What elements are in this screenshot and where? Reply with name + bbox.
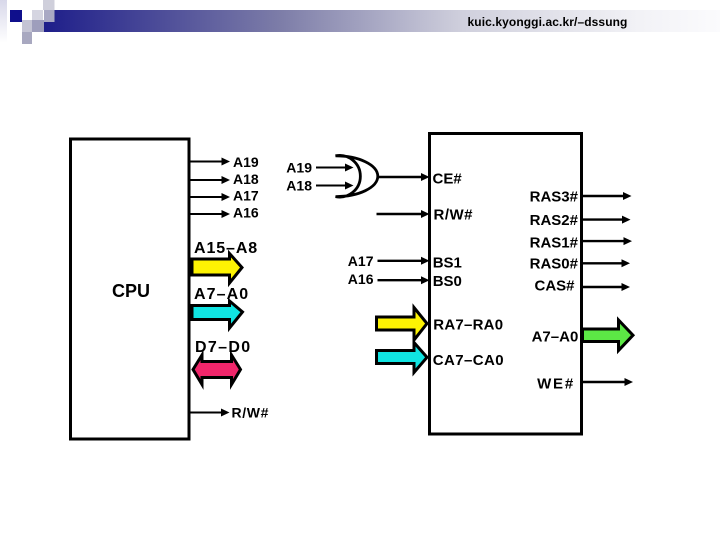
svg-text:RAS3#: RAS3# <box>530 189 579 206</box>
svg-text:RAS1#: RAS1# <box>530 234 579 251</box>
svg-text:RA7–RA0: RA7–RA0 <box>433 316 503 333</box>
bus arrow A15-A8 yellow <box>192 254 242 284</box>
bus arrow A7-A0 cyan <box>192 301 243 328</box>
wire A18 to OR gate <box>316 182 354 190</box>
wire R/W# from CPU <box>190 409 230 417</box>
svg-text:A16: A16 <box>348 271 374 287</box>
svg-text:CAS#: CAS# <box>534 278 575 295</box>
OR gate U1 <box>336 155 378 197</box>
svg-text:A16: A16 <box>233 205 259 221</box>
CPU box <box>71 139 190 439</box>
wire A17 to BS1 <box>378 257 430 265</box>
bus arrow RA7-RA0 yellow <box>377 308 428 341</box>
wire A16 from CPU <box>190 210 230 218</box>
svg-text:A7–A0: A7–A0 <box>194 286 249 303</box>
svg-text:BS1: BS1 <box>433 255 462 272</box>
svg-text:A15–A8: A15–A8 <box>194 240 258 257</box>
svg-text:CA7–CA0: CA7–CA0 <box>433 352 504 369</box>
bus arrow D7-D0 magenta bidirectional <box>193 355 241 385</box>
svg-text:R/W#: R/W# <box>232 405 270 421</box>
svg-text:A18: A18 <box>286 178 312 194</box>
memory box U2 <box>430 134 582 435</box>
svg-text:CPU: CPU <box>112 281 150 301</box>
svg-text:A17: A17 <box>348 253 374 269</box>
svg-text:WE#: WE# <box>537 375 575 392</box>
svg-text:A7–A0: A7–A0 <box>532 328 579 345</box>
wire RAS1# out <box>582 237 632 245</box>
wire CAS# out <box>582 283 630 291</box>
svg-text:R/W#: R/W# <box>434 207 474 224</box>
wire R/W# to memory <box>377 210 430 218</box>
bus arrow A7-A0 green <box>583 320 634 351</box>
wire A19 from CPU <box>190 158 230 166</box>
svg-text:CE#: CE# <box>433 171 463 188</box>
svg-text:kuic.kyonggi.ac.kr/–dssung: kuic.kyonggi.ac.kr/–dssung <box>468 15 628 29</box>
svg-text:A19: A19 <box>286 159 312 175</box>
wire A16 to BS0 <box>378 276 430 284</box>
wire WE# out <box>582 378 633 386</box>
svg-text:A18: A18 <box>233 171 259 187</box>
wire A19 to OR gate <box>316 164 354 172</box>
wire RAS0# out <box>582 259 630 267</box>
wire A18 from CPU <box>190 176 230 184</box>
svg-text:RAS0#: RAS0# <box>530 255 579 272</box>
wire OR output to CE# <box>378 173 430 181</box>
wire A17 from CPU <box>190 193 230 201</box>
svg-text:A19: A19 <box>233 154 259 170</box>
svg-text:BS0: BS0 <box>433 273 462 290</box>
wire RAS3# out <box>582 192 632 200</box>
wire RAS2# out <box>582 216 631 224</box>
svg-text:RAS2#: RAS2# <box>530 212 579 229</box>
svg-text:A17: A17 <box>233 188 259 204</box>
bus arrow CA7-CA0 cyan <box>377 343 428 373</box>
